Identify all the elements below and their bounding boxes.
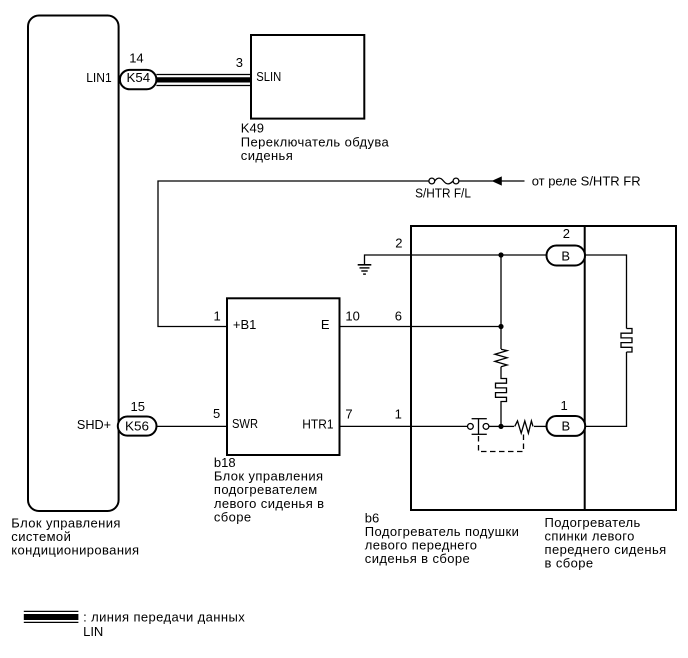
resistor (temperature sensor) bbox=[495, 349, 507, 367]
wire: cushion branch vertical bbox=[500, 255, 502, 349]
svg-text:6: 6 bbox=[395, 308, 402, 323]
svg-text:14: 14 bbox=[129, 50, 143, 65]
svg-text:1: 1 bbox=[395, 406, 402, 421]
wire HTR1 to switch bbox=[340, 425, 468, 427]
thermal switch bbox=[468, 419, 489, 435]
connector B (pin 1) bbox=[547, 398, 586, 436]
svg-text:+B1: +B1 bbox=[233, 317, 257, 332]
LIN bus wire (thick data line) bbox=[156, 75, 251, 86]
wire: seatback heater bottom bbox=[585, 352, 627, 426]
b6 caption bbox=[365, 511, 519, 567]
svg-text:в сборе: в сборе bbox=[545, 555, 594, 570]
ECU caption bbox=[11, 516, 139, 558]
svg-text:1: 1 bbox=[214, 308, 221, 323]
svg-text:2: 2 bbox=[395, 236, 402, 251]
wire E to junction bbox=[340, 326, 502, 328]
svg-text:сборе: сборе bbox=[214, 509, 252, 524]
b18 box: seat heater control unit bbox=[227, 298, 340, 455]
svg-text:10: 10 bbox=[345, 308, 359, 323]
heater element (cushion) bbox=[496, 367, 507, 427]
svg-text:K56: K56 bbox=[125, 419, 149, 434]
connector K54 bbox=[120, 70, 156, 89]
K49 box: seat ventilation switch bbox=[251, 35, 364, 119]
wire: switch to junction bbox=[489, 425, 501, 427]
svg-text:от реле S/HTR FR: от реле S/HTR FR bbox=[532, 173, 641, 188]
svg-text:LIN: LIN bbox=[83, 624, 103, 639]
junction node (bottom) bbox=[498, 424, 503, 429]
svg-text:3: 3 bbox=[236, 55, 243, 70]
svg-text:E: E bbox=[321, 317, 330, 332]
svg-text:5: 5 bbox=[213, 406, 220, 421]
svg-text:: линия передачи данных: : линия передачи данных bbox=[83, 610, 245, 625]
svg-text:1: 1 bbox=[561, 398, 568, 413]
fuse S/HTR F/L bbox=[415, 178, 471, 200]
junction node (E) bbox=[498, 324, 503, 329]
svg-text:K54: K54 bbox=[127, 70, 151, 85]
connector K56 bbox=[118, 417, 157, 436]
wire to arrow bbox=[459, 180, 493, 182]
svg-text:B: B bbox=[561, 248, 570, 263]
resistor (thermal, in series) bbox=[501, 421, 547, 433]
connector B (pin 2) bbox=[547, 226, 586, 266]
junction node (top) bbox=[498, 252, 503, 257]
svg-text:2: 2 bbox=[563, 226, 570, 241]
svg-text:кондиционирования: кондиционирования bbox=[11, 542, 139, 557]
svg-text:B: B bbox=[561, 419, 570, 434]
svg-text:HTR1: HTR1 bbox=[302, 417, 333, 432]
svg-text:SHD+: SHD+ bbox=[77, 417, 111, 432]
svg-text:7: 7 bbox=[345, 406, 352, 421]
legend: LIN data line symbol bbox=[24, 611, 79, 622]
wire SWR bbox=[157, 425, 228, 427]
wire: seatback heater top bbox=[585, 255, 627, 329]
svg-text:15: 15 bbox=[131, 399, 145, 414]
seatback heater caption bbox=[545, 515, 667, 570]
ECU box: A/C control unit (Блок управления системой кондиционирования) bbox=[28, 16, 119, 512]
divider line (seatback heater section) bbox=[584, 226, 586, 510]
svg-text:LIN1: LIN1 bbox=[86, 70, 112, 85]
dashed mechanical link bbox=[479, 435, 524, 452]
b6 box: seat cushion heater assembly bbox=[411, 226, 676, 510]
b18 caption bbox=[214, 455, 325, 524]
wire: +B1 feed from fuse bbox=[158, 181, 429, 327]
svg-text:SWR: SWR bbox=[232, 416, 258, 431]
arrow: from relay S/HTR FR bbox=[493, 173, 641, 188]
svg-text:SLIN: SLIN bbox=[256, 69, 281, 84]
svg-text:сиденья: сиденья bbox=[241, 148, 293, 163]
svg-text:сиденья в сборе: сиденья в сборе bbox=[365, 551, 470, 566]
heater element (seatback) bbox=[621, 329, 632, 353]
legend text bbox=[83, 610, 245, 639]
K49 caption bbox=[241, 121, 390, 163]
svg-text:S/HTR F/L: S/HTR F/L bbox=[415, 186, 471, 201]
ground bbox=[358, 255, 547, 274]
